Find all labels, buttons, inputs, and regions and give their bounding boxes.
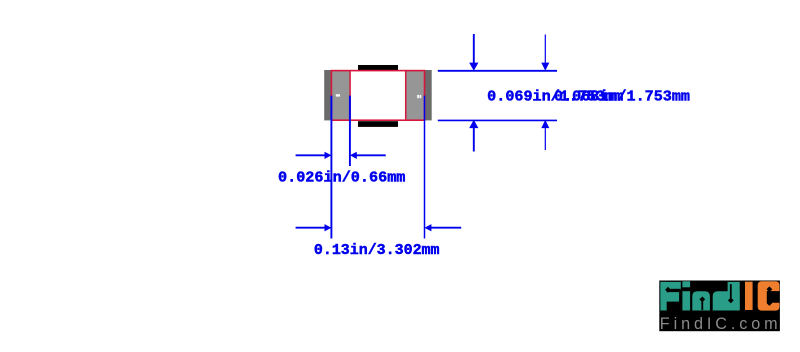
dimension line 1 right-pointing arrowhead xyxy=(325,152,332,159)
vertical dimension A stem top xyxy=(473,34,475,65)
dimension line 1 right stem xyxy=(356,154,386,156)
logo letter C (orange) xyxy=(758,281,780,310)
vertical dimension A arrowhead down xyxy=(469,63,478,71)
dimension line 2 left-pointing arrowhead xyxy=(425,224,432,231)
extension line at courtyard left edge (x=331.4) xyxy=(330,96,332,239)
horizontal extension line, top (y=70.8) xyxy=(438,70,557,72)
logo letter F (teal) xyxy=(660,282,680,311)
body outline top bar (black) xyxy=(358,65,398,71)
pad 1 outer strip (left, dark gray) xyxy=(324,70,331,120)
vertical dimension A stem bottom xyxy=(473,126,475,152)
pin 2 label (white) xyxy=(417,95,419,98)
body outline bottom bar (black) xyxy=(358,121,398,127)
svg-text:0.13in/3.302mm: 0.13in/3.302mm xyxy=(314,242,440,259)
dimension line 2 right stem xyxy=(430,227,461,229)
courtyard rectangle (red) xyxy=(331,71,424,121)
logo letter d (teal) xyxy=(713,291,740,310)
horizontal extension line, bottom (y=120.4) xyxy=(438,119,557,121)
extension line at courtyard right edge (x=424.5) xyxy=(424,96,426,239)
pad 2 inner (right, light gray) xyxy=(406,70,425,120)
pad 1 inner (left, light gray) xyxy=(331,70,350,120)
logo letter n (teal) xyxy=(692,291,710,310)
FindIC logo background (black) xyxy=(659,281,780,332)
svg-text:0.026in/0.66mm: 0.026in/0.66mm xyxy=(278,169,405,186)
vertical dimension B arrowhead down xyxy=(541,63,549,71)
dimension line 1 left stem xyxy=(296,154,326,156)
svg-text:FindIC.com: FindIC.com xyxy=(660,315,782,333)
dimension line 2 right-pointing arrowhead xyxy=(325,224,332,231)
logo letter i (teal) xyxy=(682,281,690,287)
vertical dimension B stem top xyxy=(544,35,546,65)
vertical dimension B stem bottom xyxy=(544,126,546,151)
pad 2 inner edge red line xyxy=(405,71,407,121)
pin 1 label (white) xyxy=(336,94,340,96)
logo letter I (orange) xyxy=(745,282,753,310)
svg-text:0.068in/1.753mm: 0.068in/1.753mm xyxy=(554,89,690,106)
pad 1 inner edge red line xyxy=(349,71,351,121)
vertical dimension A arrowhead up xyxy=(469,120,478,128)
dimension line 2 left stem xyxy=(296,227,326,229)
dimension line 1 left-pointing arrowhead xyxy=(350,152,357,159)
extension line at pad1 inner edge (x=349.9) xyxy=(349,96,351,166)
pad 2 outer strip (right, dark gray) xyxy=(425,70,432,120)
vertical dimension B arrowhead up xyxy=(541,120,549,128)
